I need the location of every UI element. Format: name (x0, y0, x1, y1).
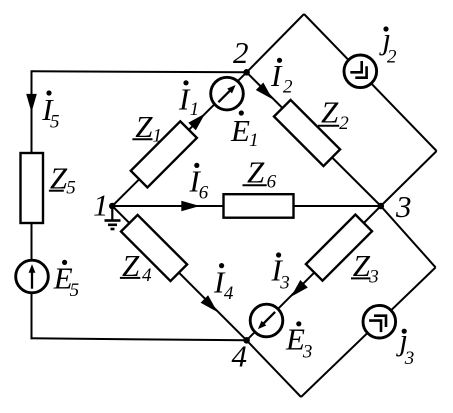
svg-text:2: 2 (339, 113, 349, 134)
svg-text:E: E (230, 113, 250, 148)
svg-text:5: 5 (66, 178, 76, 199)
svg-text:4: 4 (224, 283, 234, 304)
svg-text:6: 6 (199, 183, 209, 204)
svg-text:Z: Z (247, 155, 265, 190)
svg-text:1: 1 (249, 130, 259, 151)
svg-text:1: 1 (93, 188, 109, 223)
svg-text:1: 1 (190, 99, 200, 120)
svg-text:6: 6 (267, 172, 277, 193)
svg-text:5: 5 (50, 112, 60, 133)
svg-text:4: 4 (232, 339, 248, 374)
svg-text:3: 3 (368, 266, 379, 287)
svg-text:3: 3 (395, 189, 412, 224)
svg-text:2: 2 (283, 76, 293, 97)
svg-text:2: 2 (233, 35, 249, 70)
svg-text:4: 4 (142, 265, 152, 286)
svg-text:3: 3 (404, 348, 415, 369)
svg-text:I: I (270, 58, 283, 93)
svg-text:3: 3 (302, 341, 313, 362)
svg-text:5: 5 (70, 280, 80, 301)
svg-text:2: 2 (387, 47, 397, 68)
svg-text:1: 1 (153, 125, 163, 146)
svg-text:Z: Z (321, 95, 339, 130)
svg-text:3: 3 (279, 272, 290, 293)
